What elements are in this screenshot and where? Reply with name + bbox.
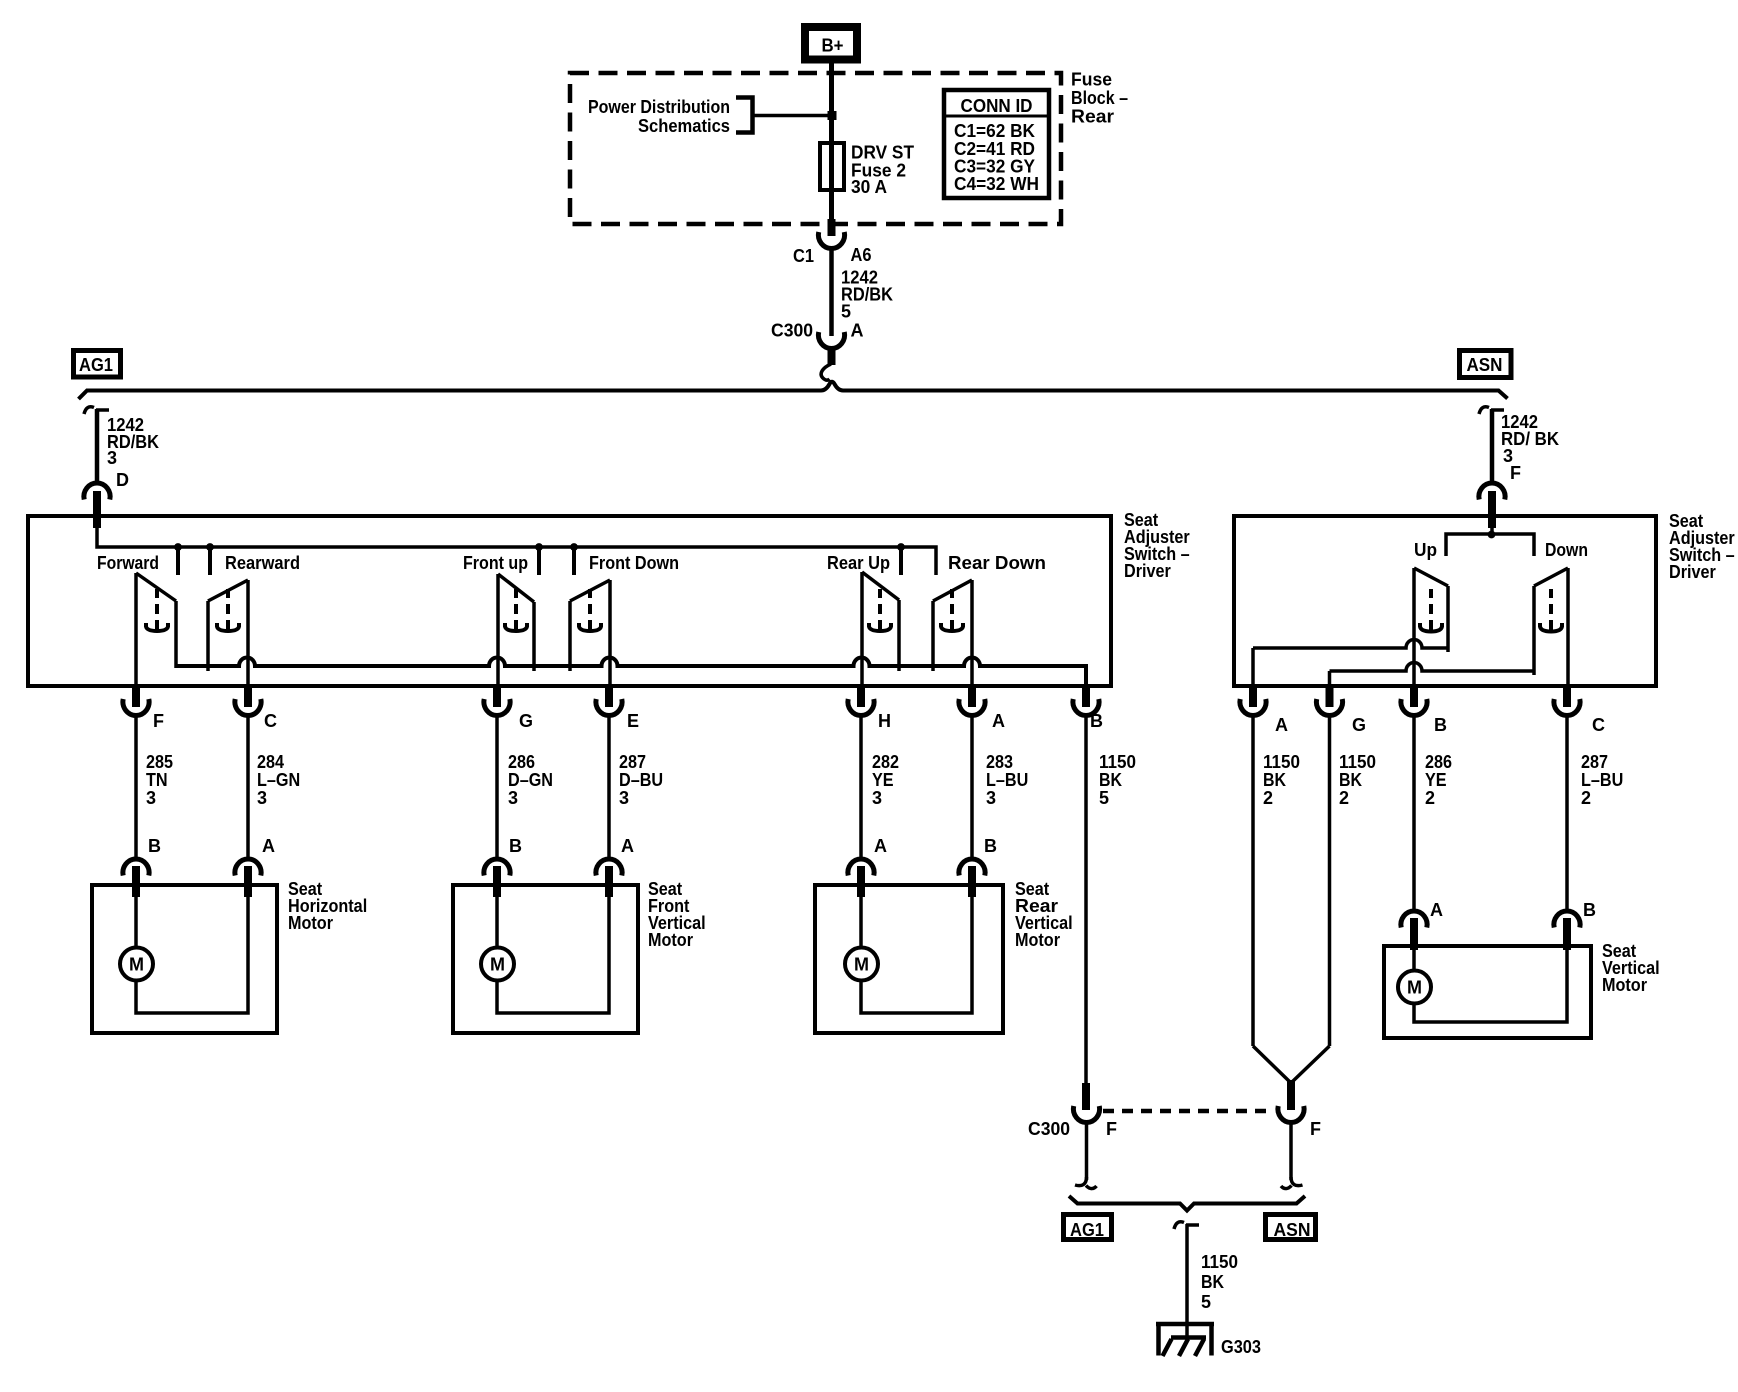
- seat front vertical motor: [453, 885, 638, 1033]
- svg-text:Power Distribution: Power Distribution: [588, 97, 730, 117]
- connector motor pin A: [848, 836, 887, 897]
- connector pin C (left box): [235, 686, 277, 731]
- svg-text:Rear Up: Rear Up: [827, 553, 890, 573]
- wire 1242 RD/BK 3 to pin D: [84, 407, 159, 490]
- connector motor pin B: [123, 836, 161, 897]
- wire 1150 BK 2 (right): [1253, 717, 1300, 1046]
- svg-text:F: F: [1510, 463, 1521, 483]
- svg-text:Driver: Driver: [1669, 562, 1716, 582]
- svg-text:C: C: [1592, 715, 1605, 735]
- connector motor pin B: [484, 836, 522, 897]
- label seat front vertical motor: [648, 879, 706, 950]
- svg-text:A: A: [1275, 715, 1288, 735]
- svg-text:1150: 1150: [1099, 752, 1136, 772]
- svg-text:3: 3: [107, 448, 117, 468]
- svg-text:285: 285: [146, 752, 173, 772]
- connector pin E (left box): [596, 686, 639, 731]
- wire 282 YE 3: [861, 717, 899, 858]
- connector seat vertical motor pin B: [1554, 900, 1596, 950]
- connector motor pin A: [235, 836, 275, 897]
- junction dot on B+ feed: [828, 111, 837, 120]
- svg-text:A: A: [992, 711, 1005, 731]
- neutral ground bus inside left box: [176, 658, 1086, 685]
- wire C300-F left to brace: [1075, 1122, 1097, 1189]
- svg-text:A: A: [851, 321, 864, 341]
- svg-text:2: 2: [1425, 788, 1435, 808]
- connector pin F (right box): [1479, 483, 1505, 528]
- svg-text:F: F: [153, 711, 164, 731]
- wire 1150 BK 5 to ground: [1174, 1222, 1238, 1338]
- svg-text:5: 5: [1099, 788, 1109, 808]
- seat horizontal motor: [92, 885, 277, 1033]
- svg-text:Motor: Motor: [648, 930, 693, 950]
- connector pin G (left box): [484, 686, 533, 731]
- connector C300 pin A: [771, 321, 864, 366]
- label seat adjuster switch driver (left): [1124, 510, 1190, 581]
- svg-text:F: F: [1310, 1119, 1321, 1139]
- svg-text:AG1: AG1: [79, 355, 113, 375]
- connector pin G (right box): [1316, 686, 1366, 735]
- svg-text:M: M: [490, 955, 505, 975]
- contact line to pin A: [1253, 640, 1448, 686]
- wire C300-F right to brace: [1281, 1122, 1303, 1189]
- svg-text:H: H: [878, 711, 891, 731]
- svg-text:Up: Up: [1414, 540, 1437, 560]
- label seat rear vertical motor: [1015, 879, 1073, 950]
- connector C300 pin F (right): [1278, 1106, 1321, 1139]
- svg-text:Block –: Block –: [1071, 88, 1128, 108]
- svg-text:C: C: [264, 711, 277, 731]
- ground G303: [1156, 1322, 1261, 1357]
- svg-text:287: 287: [1581, 752, 1608, 772]
- svg-text:D–GN: D–GN: [508, 770, 553, 790]
- switch Forward: [97, 553, 176, 686]
- svg-text:D–BU: D–BU: [619, 770, 663, 790]
- wire 287 D–BU 3: [609, 717, 663, 858]
- svg-text:A: A: [621, 836, 634, 856]
- svg-text:3: 3: [146, 788, 156, 808]
- svg-text:C1: C1: [793, 246, 814, 266]
- svg-text:DRV ST: DRV ST: [851, 143, 914, 163]
- svg-text:CONN ID: CONN ID: [961, 96, 1033, 116]
- label seat adjuster switch driver (right): [1669, 511, 1735, 582]
- svg-text:3: 3: [619, 788, 629, 808]
- svg-text:BK: BK: [1201, 1272, 1224, 1292]
- wire B+ to fuse: [829, 63, 834, 144]
- svg-text:5: 5: [841, 302, 851, 322]
- contact line to pin G: [1330, 663, 1535, 687]
- wire 287 L–BU 2 (right): [1567, 717, 1623, 909]
- feed stubs and junction dots: [174, 543, 905, 575]
- switch Rearward: [208, 553, 300, 686]
- connector C300 pin F (left): [1028, 1083, 1117, 1139]
- svg-text:3: 3: [986, 788, 996, 808]
- connector C1 pin A6: [793, 219, 872, 266]
- switch Front up: [463, 553, 534, 686]
- svg-text:B: B: [509, 836, 522, 856]
- connector pin F (left box): [123, 686, 164, 731]
- svg-text:5: 5: [1201, 1292, 1211, 1312]
- svg-text:D: D: [116, 470, 129, 490]
- svg-text:A6: A6: [851, 245, 872, 265]
- splice brace AG1/ASN: [1069, 1196, 1305, 1211]
- svg-text:30 A: 30 A: [851, 177, 887, 197]
- svg-text:1150: 1150: [1263, 752, 1300, 772]
- wire 283 L–BU 3: [972, 717, 1028, 858]
- svg-text:B: B: [1583, 900, 1596, 920]
- switch Rear Down: [933, 553, 1046, 686]
- dashed connector C300 line: [1103, 1109, 1272, 1114]
- svg-text:G: G: [519, 711, 533, 731]
- svg-text:B+: B+: [822, 36, 844, 56]
- svg-text:Rearward: Rearward: [225, 553, 300, 573]
- svg-text:1150: 1150: [1339, 752, 1376, 772]
- svg-text:AG1: AG1: [1070, 1220, 1104, 1240]
- page link line AG1-ASN: [79, 382, 1508, 399]
- wire bracket to B+ feed: [753, 114, 829, 118]
- svg-text:Rear Down: Rear Down: [948, 553, 1046, 573]
- svg-text:Fuse: Fuse: [1071, 70, 1112, 90]
- svg-text:M: M: [1407, 978, 1422, 998]
- connector seat vertical motor pin A: [1401, 900, 1443, 950]
- svg-text:A: A: [262, 836, 275, 856]
- svg-text:282: 282: [872, 752, 899, 772]
- svg-text:E: E: [627, 711, 639, 731]
- page link tag ASN (bottom): [1266, 1215, 1316, 1241]
- svg-text:A: A: [874, 836, 887, 856]
- wire 286 YE 2 (right): [1414, 717, 1452, 909]
- svg-text:YE: YE: [872, 770, 894, 790]
- connector pin B (right box): [1401, 686, 1447, 735]
- connector pin C (right box): [1554, 686, 1605, 735]
- page link tag ASN (top): [1460, 351, 1512, 378]
- svg-text:ASN: ASN: [1274, 1220, 1311, 1240]
- switch Rear Up: [827, 553, 899, 686]
- svg-text:TN: TN: [146, 770, 168, 790]
- connector motor pin B: [959, 836, 997, 897]
- fuse block dashed box: [570, 73, 1061, 224]
- svg-text:ASN: ASN: [1467, 355, 1503, 375]
- svg-text:G: G: [1352, 715, 1366, 735]
- CONN ID table: [944, 90, 1049, 198]
- svg-text:L–GN: L–GN: [257, 770, 300, 790]
- label seat horizontal motor: [288, 879, 367, 933]
- switch Up: [1414, 540, 1448, 686]
- switch Down: [1534, 540, 1588, 686]
- svg-text:BK: BK: [1263, 770, 1286, 790]
- svg-text:B: B: [1434, 715, 1447, 735]
- battery feed terminal B+: [805, 27, 857, 60]
- svg-text:Schematics: Schematics: [638, 116, 730, 136]
- wire 1150 BK 5: [1086, 717, 1136, 1085]
- wire 1150 BK 2 (right): [1330, 717, 1377, 1046]
- svg-text:L–BU: L–BU: [1581, 770, 1623, 790]
- splice curl into link line: [821, 364, 831, 380]
- svg-text:2: 2: [1339, 788, 1349, 808]
- wire 284 L–GN 3: [248, 717, 300, 858]
- svg-text:286: 286: [508, 752, 535, 772]
- Y-merge of ground wires: [1253, 1046, 1330, 1110]
- svg-text:Driver: Driver: [1124, 561, 1171, 581]
- svg-text:Front up: Front up: [463, 553, 528, 573]
- svg-text:3: 3: [257, 788, 267, 808]
- switch Front Down: [570, 553, 679, 686]
- svg-text:Motor: Motor: [288, 913, 333, 933]
- connector pin H (left box): [848, 686, 891, 731]
- feed line inside left box: [97, 514, 936, 575]
- seat vertical motor: [1384, 946, 1591, 1038]
- svg-text:B: B: [148, 836, 161, 856]
- svg-text:Rear: Rear: [1071, 107, 1114, 127]
- svg-text:286: 286: [1425, 752, 1452, 772]
- svg-text:Forward: Forward: [97, 553, 159, 573]
- svg-text:2: 2: [1581, 788, 1591, 808]
- svg-text:2: 2: [1263, 788, 1273, 808]
- svg-text:BK: BK: [1339, 770, 1362, 790]
- svg-text:Motor: Motor: [1602, 975, 1647, 995]
- svg-text:3: 3: [872, 788, 882, 808]
- wire 286 D–GN 3: [497, 717, 553, 858]
- label Fuse Block - Rear: [1071, 70, 1128, 127]
- wire 1242 RD/BK 5: [832, 250, 894, 336]
- connector pin D: [84, 483, 110, 528]
- svg-text:Down: Down: [1545, 540, 1588, 560]
- connector pin A (left box): [959, 686, 1005, 731]
- svg-text:C1=62 BK: C1=62 BK: [954, 121, 1035, 141]
- svg-text:Motor: Motor: [1015, 930, 1060, 950]
- svg-text:Front Down: Front Down: [589, 553, 679, 573]
- label Power Distribution Schematics: [588, 97, 730, 136]
- svg-text:A: A: [1430, 900, 1443, 920]
- seat adjuster switch driver box (left): [28, 516, 1111, 686]
- svg-text:B: B: [1090, 711, 1103, 731]
- bracket to power distribution: [736, 98, 753, 133]
- svg-text:1150: 1150: [1201, 1252, 1238, 1272]
- svg-text:M: M: [129, 955, 144, 975]
- wire 285 TN 3: [136, 717, 173, 858]
- svg-text:BK: BK: [1099, 770, 1122, 790]
- svg-text:F: F: [1106, 1119, 1117, 1139]
- svg-text:3: 3: [508, 788, 518, 808]
- svg-text:C300: C300: [771, 321, 813, 341]
- svg-text:L–BU: L–BU: [986, 770, 1028, 790]
- seat rear vertical motor: [815, 885, 1003, 1033]
- page link tag AG1 (top): [74, 351, 121, 378]
- connector motor pin A: [596, 836, 634, 897]
- seat adjuster switch driver box (right): [1234, 516, 1656, 686]
- connector pin B (left box): [1073, 686, 1103, 731]
- wire fuse to connector C1: [829, 190, 834, 221]
- svg-text:G303: G303: [1221, 1337, 1261, 1357]
- connector pin A (right box): [1240, 686, 1288, 735]
- svg-text:YE: YE: [1425, 770, 1447, 790]
- svg-text:B: B: [984, 836, 997, 856]
- wire 1242 RD/BK 3 to pin F: [1479, 407, 1559, 483]
- feed tee inside right box: [1446, 514, 1534, 556]
- svg-text:283: 283: [986, 752, 1013, 772]
- svg-text:287: 287: [619, 752, 646, 772]
- svg-text:M: M: [854, 955, 869, 975]
- fuse DRV ST Fuse 2 30 A: [820, 143, 914, 198]
- svg-text:284: 284: [257, 752, 284, 772]
- page link tag AG1 (bottom): [1064, 1215, 1112, 1241]
- label seat vertical motor: [1602, 941, 1660, 995]
- svg-text:C4=32 WH: C4=32 WH: [954, 174, 1039, 194]
- svg-text:C300: C300: [1028, 1119, 1070, 1139]
